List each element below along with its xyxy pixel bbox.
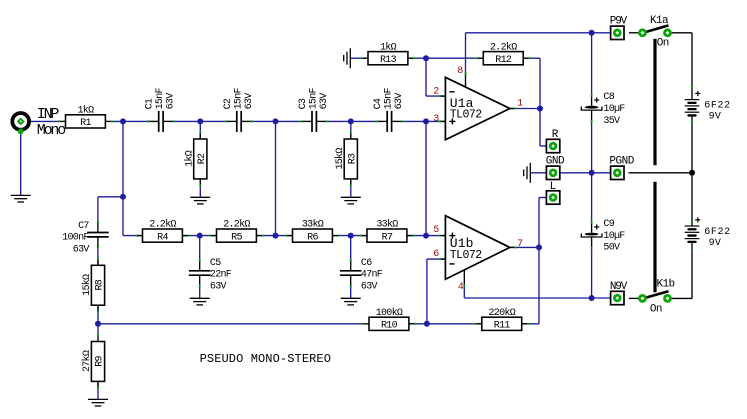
- svg-text:15nF: 15nF: [233, 87, 244, 109]
- wire R2 to ground: [199, 178, 201, 197]
- svg-text:63V: 63V: [394, 93, 405, 110]
- resistor R11 220kΩ: [474, 307, 529, 332]
- ground at input: [11, 195, 31, 202]
- svg-text:R13: R13: [380, 55, 397, 66]
- svg-text:33kΩ: 33kΩ: [302, 219, 324, 231]
- connector pad R: [546, 139, 559, 152]
- pin specks U1b: [439, 235, 441, 237]
- capacitor C9 10µF 50V: [581, 219, 625, 254]
- svg-text:TL072: TL072: [450, 249, 482, 262]
- svg-text:1kΩ: 1kΩ: [380, 41, 397, 53]
- wire R9 to ground: [97, 381, 99, 399]
- svg-text:R3: R3: [348, 153, 359, 164]
- capacitor C5 22nF 63V: [189, 258, 232, 293]
- svg-text:2.2kΩ: 2.2kΩ: [490, 41, 517, 53]
- wire C9 to N9V node: [591, 247, 593, 298]
- ground below C6: [341, 298, 361, 305]
- resistor R4 2.2kΩ: [135, 219, 190, 244]
- svg-text:R8: R8: [95, 279, 106, 290]
- wire C5 drop: [199, 236, 201, 262]
- wire R10 to node C: [407, 323, 427, 325]
- svg-text:C1: C1: [145, 98, 156, 109]
- junction U1b output node: [536, 244, 542, 250]
- op-amp U1a TL072: [445, 77, 509, 140]
- ground below R9: [88, 399, 108, 406]
- svg-text:C3: C3: [298, 98, 309, 109]
- resistor R13 1kΩ: [361, 41, 416, 66]
- svg-text:C5: C5: [210, 258, 221, 269]
- junction N9V node: [589, 295, 595, 301]
- mechanical link bar of K1 lower segment: [653, 182, 656, 292]
- wire R4 to R5: [181, 235, 217, 237]
- svg-text:6F22: 6F22: [704, 101, 730, 112]
- svg-text:N9V: N9V: [610, 281, 628, 293]
- pin specks U1a: [439, 95, 441, 97]
- svg-text:9V: 9V: [709, 112, 722, 123]
- svg-text:PSEUDO MONO-STEREO: PSEUDO MONO-STEREO: [200, 352, 331, 366]
- svg-text:K1b: K1b: [656, 279, 674, 291]
- svg-text:R1: R1: [80, 118, 91, 129]
- junction U1a output node: [537, 106, 543, 112]
- wire pin 7 output of U1b: [510, 246, 539, 248]
- wire B1 minus to mid node to B2 plus: [691, 117, 693, 226]
- mechanical link bar of K1 upper segment: [653, 39, 656, 165]
- svg-text:220kΩ: 220kΩ: [488, 307, 515, 319]
- svg-text:15kΩ: 15kΩ: [81, 274, 93, 296]
- connector pad P9V: [611, 26, 624, 39]
- wire P9V pad to switch K1a: [629, 32, 641, 34]
- wire R4 row segment node A to R4: [123, 235, 143, 237]
- svg-text:15nF: 15nF: [384, 87, 395, 109]
- connector pad N9V: [611, 291, 624, 304]
- wire input to R1: [28, 120, 59, 122]
- svg-text:R5: R5: [231, 232, 242, 243]
- svg-text:1kΩ: 1kΩ: [184, 150, 196, 167]
- resistor R6 33kΩ: [285, 219, 340, 244]
- svg-text:GND: GND: [546, 156, 565, 168]
- wire K1b to N9V pad: [629, 297, 641, 299]
- svg-text:On: On: [650, 303, 662, 315]
- wire pin 4 of U1b down: [463, 286, 465, 298]
- svg-text:C4: C4: [373, 98, 384, 109]
- pin leads U1a: [440, 95, 446, 97]
- wire R13 to R12: [408, 57, 484, 59]
- svg-text:R9: R9: [95, 355, 106, 366]
- wire C3 to C4: [327, 120, 377, 122]
- wire node B to R9: [97, 324, 99, 336]
- capacitor C3 15nF 63V: [298, 87, 330, 131]
- svg-text:PGND: PGND: [609, 156, 634, 168]
- capacitor C2 15nF 63V: [223, 87, 255, 131]
- svg-text:P9V: P9V: [610, 15, 628, 27]
- svg-text:INP: INP: [37, 106, 60, 123]
- svg-text:35V: 35V: [603, 116, 620, 127]
- wire C7 to R8: [97, 245, 99, 266]
- svg-text:15nF: 15nF: [309, 87, 320, 109]
- junction dots on main row: [120, 118, 126, 124]
- resistor R1 1kΩ: [58, 105, 113, 130]
- svg-text:63V: 63V: [244, 93, 255, 110]
- capacitor C1 15nF 63V: [145, 87, 177, 131]
- wire GND pad to PGND node: [560, 172, 611, 174]
- junction node C (R10/R11/pin6): [424, 321, 430, 327]
- wire branch to C7 horizontal: [98, 196, 123, 198]
- wire R7 to pin 5 of U1b: [408, 235, 446, 237]
- svg-text:R7: R7: [382, 232, 393, 243]
- wire top rail to P9V: [466, 32, 611, 34]
- svg-text:27kΩ: 27kΩ: [81, 350, 93, 372]
- svg-text:10µF: 10µF: [603, 231, 625, 242]
- wire N9V node to N9V pad: [592, 297, 611, 299]
- svg-text:63V: 63V: [210, 281, 227, 292]
- capacitor C6 47nF 63V: [340, 258, 383, 293]
- svg-text:R12: R12: [495, 55, 512, 66]
- junction R13/R12 node: [423, 55, 429, 61]
- svg-text:63V: 63V: [319, 93, 330, 110]
- resistor R8 15kΩ: [81, 258, 106, 313]
- svg-text:R2: R2: [197, 153, 208, 164]
- connector pad GND: [546, 166, 559, 179]
- svg-text:K1a: K1a: [650, 15, 669, 27]
- svg-text:100kΩ: 100kΩ: [376, 307, 403, 319]
- wire PGND node to C9: [591, 173, 593, 224]
- svg-text:63V: 63V: [73, 245, 90, 256]
- svg-text:On: On: [657, 38, 669, 50]
- wire R5 to R6: [258, 235, 293, 237]
- op-amp U1b TL072: [445, 216, 509, 280]
- svg-text:47nF: 47nF: [361, 270, 383, 281]
- input connector INP/Mono: [12, 113, 29, 134]
- wire ground to GND pad: [530, 172, 546, 174]
- wire node C up to pin 6 of U1b: [426, 259, 428, 324]
- battery B2 6F22 9V: [685, 217, 701, 243]
- wire main row to R3: [350, 121, 352, 139]
- wire node C to R11: [427, 323, 482, 325]
- junction top rail at C8: [589, 30, 595, 36]
- ground below R3: [341, 197, 361, 204]
- svg-text:2.2kΩ: 2.2kΩ: [149, 219, 176, 231]
- capacitor C8 10µF 35V: [581, 92, 625, 127]
- wire R11 to output column: [520, 323, 539, 325]
- wire branch to C7 vertical: [97, 197, 99, 224]
- wire C4 to pin 3 of U1a: [402, 120, 445, 122]
- switch K1b: [638, 291, 672, 303]
- battery B1 6F22 9V: [685, 91, 701, 117]
- svg-text:50V: 50V: [603, 243, 620, 254]
- wire pin 4 to N9V node: [464, 297, 591, 299]
- wire C5 to ground: [199, 285, 201, 298]
- resistor R10 100kΩ: [362, 307, 417, 332]
- ground below R2: [190, 197, 210, 204]
- wire main row to R2: [199, 121, 201, 139]
- switch K1a: [638, 25, 672, 37]
- ground below C5: [190, 298, 210, 305]
- svg-text:C8: C8: [603, 92, 614, 103]
- wire R12 to output node vertical: [521, 57, 540, 59]
- wire C6 to ground: [350, 285, 352, 298]
- resistor R3 15kΩ: [334, 132, 359, 187]
- wire B2 minus to switch K1b: [691, 243, 693, 299]
- svg-text:33kΩ: 33kΩ: [376, 219, 398, 231]
- svg-text:100nF: 100nF: [62, 233, 89, 244]
- wire R13 node down to pin 2 of U1a: [425, 58, 427, 96]
- svg-text:22nF: 22nF: [210, 270, 232, 281]
- wire pin 8 of U1a to top rail: [465, 33, 467, 74]
- wire R8 to node B: [97, 305, 99, 324]
- svg-text:R10: R10: [381, 321, 398, 332]
- sideways ground at GND pad: [524, 163, 531, 183]
- wire vertical node A (x=123) down to R4 row: [122, 121, 124, 235]
- wire output node down to R11: [538, 247, 540, 323]
- svg-text:C6: C6: [361, 258, 372, 269]
- capacitor C4 15nF 63V: [373, 87, 405, 131]
- resistor R5 2.2kΩ: [209, 219, 264, 244]
- wire vertical x=426 pin3 node to pin5 node: [425, 121, 427, 235]
- sideways ground at R13: [344, 48, 351, 68]
- wire C8 column top: [591, 33, 593, 97]
- wire R1 to C1 (node after R1): [111, 120, 148, 122]
- resistor R2 1kΩ: [184, 132, 209, 187]
- svg-text:C9: C9: [603, 219, 614, 230]
- svg-text:63V: 63V: [361, 281, 378, 292]
- resistor R9 27kΩ: [81, 334, 106, 389]
- svg-text:10µF: 10µF: [603, 104, 625, 115]
- svg-text:R11: R11: [494, 321, 511, 332]
- wire R6 to R7: [333, 235, 367, 237]
- svg-text:L: L: [550, 181, 556, 193]
- wire vertical x=275.5 main row to R4 row: [275, 121, 277, 235]
- capacitor C7 100nF 63V: [62, 221, 109, 256]
- svg-text:C2: C2: [223, 98, 234, 109]
- wire node B to R10: [98, 323, 364, 325]
- svg-text:2.2kΩ: 2.2kΩ: [223, 219, 250, 231]
- junction PGND node: [589, 170, 595, 176]
- resistor R7 33kΩ: [360, 219, 415, 244]
- wire PGND pad to battery mid node: [629, 172, 693, 174]
- wire C2 to C3: [252, 120, 302, 122]
- svg-text:C7: C7: [78, 221, 89, 232]
- pin leads U1b: [440, 235, 446, 237]
- wire R3 to ground: [350, 178, 352, 197]
- svg-text:1kΩ: 1kΩ: [77, 105, 94, 117]
- svg-text:R6: R6: [307, 232, 318, 243]
- svg-text:6F22: 6F22: [704, 227, 730, 238]
- wire C6 drop: [350, 236, 352, 262]
- junction dots on R4 row: [197, 233, 203, 239]
- junction battery mid node: [689, 170, 695, 176]
- wire L pad branch: [539, 197, 547, 199]
- wire C1 to C2: [174, 120, 227, 122]
- svg-text:15nF: 15nF: [155, 87, 166, 109]
- svg-text:9V: 9V: [709, 238, 722, 249]
- connector pad L: [546, 191, 559, 204]
- wire C8 to PGND node: [591, 120, 593, 173]
- wire ground to R13: [350, 57, 368, 59]
- svg-text:TL072: TL072: [450, 109, 482, 122]
- junction node B (R8/R9/R10): [95, 321, 101, 327]
- wire pin 1 output of U1a: [510, 108, 540, 110]
- connector pad PGND: [611, 166, 624, 179]
- resistor R12 2.2kΩ: [476, 41, 531, 66]
- wire to R pad: [540, 145, 547, 147]
- svg-text:R4: R4: [157, 232, 168, 243]
- junction node A: [120, 194, 126, 200]
- svg-text:15kΩ: 15kΩ: [334, 148, 346, 170]
- wire K1a to battery B1 plus: [669, 32, 692, 34]
- svg-text:Mono: Mono: [37, 122, 66, 139]
- wire input to input ground: [20, 130, 22, 195]
- svg-text:63V: 63V: [166, 93, 177, 110]
